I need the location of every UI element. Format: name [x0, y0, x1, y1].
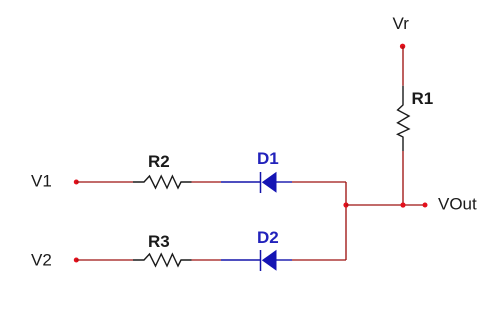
wire V1 dot to R2 — [76, 181, 133, 183]
svg-text:V2: V2 — [31, 251, 52, 270]
resistor R2 — [133, 176, 192, 188]
wire R1 bottom to VOut rail — [402, 151, 404, 205]
svg-text:D1: D1 — [257, 149, 279, 168]
node junction bus/VOut — [343, 202, 348, 207]
resistor R1 — [398, 86, 409, 151]
node V1 terminal dot — [74, 180, 79, 185]
svg-text:R1: R1 — [412, 89, 434, 108]
svg-text:R3: R3 — [148, 232, 170, 251]
svg-text:V1: V1 — [31, 171, 52, 190]
node Vr terminal dot — [400, 44, 405, 49]
wire VOut rail — [346, 204, 425, 206]
node junction R1/VOut — [400, 202, 405, 207]
svg-text:D2: D2 — [257, 228, 279, 247]
svg-text:R2: R2 — [148, 152, 170, 171]
resistor R3 — [133, 254, 192, 266]
wire R3 to D2 — [192, 259, 222, 261]
wire D1 to right corner — [292, 181, 346, 183]
node V2 terminal dot — [74, 258, 79, 263]
diode D1 — [221, 172, 292, 193]
wire R2 to D1 — [192, 181, 222, 183]
wire V2 dot to R3 — [76, 259, 133, 261]
svg-text:VOut: VOut — [438, 194, 477, 213]
wire Vr dot to R1 top — [402, 46, 404, 85]
node VOut terminal dot — [423, 203, 428, 208]
svg-text:Vr: Vr — [393, 14, 410, 33]
wire right vertical bus — [345, 182, 347, 260]
wire D2 to right corner — [292, 259, 346, 261]
diode D2 — [221, 250, 292, 271]
